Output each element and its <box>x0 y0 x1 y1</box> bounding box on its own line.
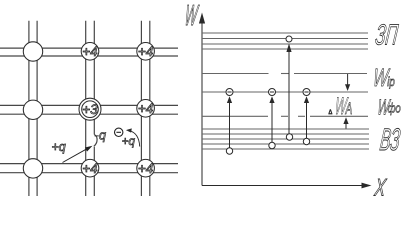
svg-text:фо: фо <box>388 102 401 116</box>
label Wip <box>372 64 396 91</box>
electron circle in conduction band <box>286 36 292 42</box>
node: empty Si atom row2 col1 <box>23 100 42 119</box>
node: +4 atom row1 col3 <box>137 43 155 61</box>
wire: lattice row1 horizontal double bond <box>0 48 178 56</box>
up arrow below valence top <box>345 123 347 130</box>
svg-text:ip: ip <box>387 76 395 90</box>
ionized acceptor circle 2 <box>269 89 276 96</box>
svg-text:W: W <box>183 0 201 31</box>
electron transition arrow 3 (to acceptor) <box>306 102 308 138</box>
electron transition arrow 2 (to acceptor) <box>271 102 273 142</box>
svg-text:ВЗ: ВЗ <box>378 124 402 158</box>
ionized acceptor circle 1 <box>226 89 233 96</box>
svg-text:+4: +4 <box>138 101 153 116</box>
wire: lattice col3 vertical double bond <box>141 21 149 196</box>
valence top line (with small dashes) <box>202 115 368 117</box>
acceptor level line <box>202 91 368 93</box>
svg-text:ЗП: ЗП <box>374 20 400 52</box>
node: empty Si atom row1 col1 <box>23 42 42 61</box>
hole circle V3 <box>286 134 292 140</box>
label dWA <box>329 94 353 120</box>
svg-text:+4: +4 <box>82 44 97 59</box>
node: acceptor +3 atom (double circle) <box>79 98 101 120</box>
wire: lattice col2 vertical double bond (right line broken below +3) <box>86 21 95 196</box>
wire: lattice row3 horizontal double bond <box>0 164 178 173</box>
ionized acceptor circle 3 <box>303 89 310 96</box>
node: empty Si atom row3 col1 <box>23 159 42 178</box>
conduction band ZP lines <box>202 33 368 49</box>
valence band VZ lines <box>202 129 369 149</box>
electron transition arrow 1 (to acceptor) <box>229 102 231 148</box>
node: +4 atom row1 col2 <box>81 43 99 61</box>
broken-bond hook below +3 <box>94 135 97 147</box>
axis X (horizontal) <box>202 185 363 187</box>
hole circle V4 <box>303 138 309 144</box>
svg-text:+q: +q <box>122 136 136 148</box>
curved arrow toward hole <box>126 128 140 146</box>
hole circle V2 <box>269 142 275 148</box>
svg-text:+4: +4 <box>82 161 97 176</box>
hole circle with minus (left diagram) <box>115 128 123 136</box>
svg-text:q: q <box>99 129 106 143</box>
label Wfo <box>376 95 400 120</box>
arrow from +q to broken bond <box>63 146 93 163</box>
wire: lattice row2 horizontal double bond <box>0 105 178 114</box>
svg-text:+3: +3 <box>82 102 98 117</box>
svg-text:X: X <box>373 174 389 199</box>
long band-to-band arrow <box>288 51 290 134</box>
svg-text:∆: ∆ <box>329 109 333 116</box>
svg-text:+q: +q <box>52 140 66 154</box>
wire: lattice col1 vertical double bond <box>29 21 37 196</box>
svg-text:+4: +4 <box>138 44 153 59</box>
node: +4 atom row3 col2 <box>81 159 99 177</box>
node: +4 atom row3 col3 <box>137 159 155 177</box>
Wip dashed level <box>202 73 367 75</box>
label -q <box>95 129 106 143</box>
down arrow at Wip->acceptor gap <box>347 74 349 85</box>
svg-text:A: A <box>345 100 353 118</box>
svg-text:+4: +4 <box>138 161 153 176</box>
axis W (vertical) <box>201 16 203 186</box>
node: +4 atom row2 col3 <box>137 100 155 118</box>
hole circle V1 <box>226 148 232 154</box>
